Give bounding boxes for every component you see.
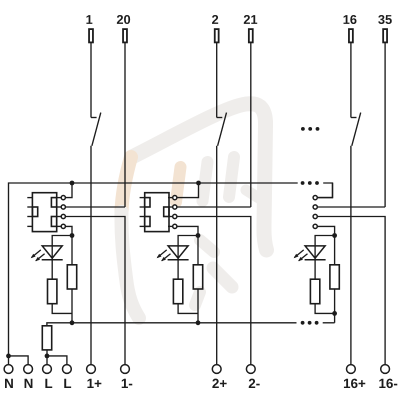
wire R0 to L terminals bbox=[46, 350, 48, 365]
resistor R1 bbox=[48, 279, 57, 304]
node ch2 coil return junction bbox=[196, 233, 201, 238]
ellipsis return bus bbox=[301, 321, 319, 325]
wire terminal 35 down to contact row bbox=[384, 43, 386, 207]
socket contacts ch1 bbox=[57, 196, 66, 229]
wire ch2 contact common to minus terminal bbox=[177, 217, 251, 365]
terminal 2- (bottom) bbox=[246, 365, 259, 388]
terminal 35 bbox=[378, 15, 392, 42]
wire terminal ch1 top lead bbox=[90, 43, 92, 118]
node N-bus / K1 coil tap bbox=[70, 181, 75, 186]
wire N bridge bbox=[9, 356, 29, 365]
socket contacts ch2 bbox=[168, 196, 177, 229]
wire ch1 contact common to minus terminal bbox=[65, 217, 125, 365]
wire L bridge bbox=[47, 356, 67, 365]
wire ch16 LED to resistor bbox=[314, 260, 316, 279]
wire ch2 LED to resistor bbox=[177, 260, 179, 279]
ellipsis N bus bbox=[301, 181, 319, 185]
LED ch1 bbox=[31, 246, 63, 261]
wire ch1 LED branch bbox=[52, 236, 72, 246]
resistor R3 bbox=[173, 279, 182, 304]
LED ch2 bbox=[157, 246, 189, 261]
wire ch16 coil return bbox=[317, 226, 334, 235]
switch S1 (contact in line 1) bbox=[91, 113, 101, 146]
terminal 21 bbox=[244, 15, 257, 42]
terminal L (bottom) bbox=[63, 365, 72, 388]
wire ch16 junction to bus bbox=[334, 313, 336, 322]
node N-bus / K2 coil tap bbox=[196, 181, 201, 186]
resistor R32 bbox=[330, 265, 339, 289]
wire N bus continuation to channel 16 bbox=[318, 183, 333, 198]
wire ch2 coil pin to N bus bbox=[177, 183, 199, 198]
wire terminal ch16 top lead bbox=[350, 43, 352, 118]
wire ch16 resistor R31 bottom bbox=[315, 304, 335, 314]
node ch1 return bus junction bbox=[70, 320, 75, 325]
wire ch16 switch to plus terminal bbox=[350, 146, 352, 365]
switch S16 (contact in line 16) bbox=[351, 113, 361, 146]
wire ch2 switch to plus terminal bbox=[216, 146, 218, 365]
terminal 1 bbox=[86, 15, 93, 42]
wire ch1 coil pin to N bus bbox=[65, 183, 72, 198]
terminal 16 bbox=[344, 15, 357, 42]
node L bridge bbox=[45, 354, 50, 359]
ellipsis switches bbox=[301, 127, 319, 131]
wire ch1 switch to plus terminal bbox=[90, 146, 92, 365]
relay K2 bbox=[140, 193, 169, 232]
terminal L (bottom) bbox=[43, 365, 53, 388]
wire ch2 contact row to terminal 21 bbox=[177, 206, 251, 208]
wire ch1 parallel branch bbox=[71, 236, 73, 265]
relay K1 bbox=[27, 193, 56, 232]
terminal 16- (bottom) bbox=[379, 365, 397, 389]
wire terminal 20 down to contact row bbox=[124, 43, 126, 207]
node ch16 coil return junction bbox=[332, 233, 337, 238]
wire ch1 LED to resistor bbox=[51, 260, 53, 279]
terminal 1- (bottom) bbox=[121, 365, 133, 388]
wire coil return bus bbox=[47, 323, 297, 326]
wire N supply bus bbox=[9, 183, 298, 365]
wire ch2 LED branch bbox=[178, 236, 198, 246]
wire ch2 coil return bbox=[177, 226, 198, 235]
node ch1 coil return junction bbox=[70, 233, 75, 238]
wire ch16 parallel branch bbox=[334, 236, 336, 265]
node N bridge bbox=[6, 354, 11, 359]
wire ch16 LED branch bbox=[315, 236, 335, 246]
resistor R4 bbox=[193, 265, 202, 289]
wire ch2 resistor R3 bottom bbox=[178, 304, 198, 314]
terminal N (bottom) bbox=[4, 365, 13, 388]
wire terminal ch2 top lead bbox=[216, 43, 218, 118]
wire ch1 resistor R1 bottom bbox=[52, 304, 72, 314]
node ch16 resistor junction bbox=[332, 311, 337, 316]
terminal 2 bbox=[212, 15, 219, 42]
LED ch16 bbox=[294, 246, 326, 261]
resistor R31 bbox=[310, 279, 319, 304]
wire terminal 21 down to contact row bbox=[250, 43, 252, 207]
wire ch2 parallel branch bbox=[197, 236, 199, 265]
terminal N (bottom) bbox=[24, 365, 33, 388]
terminal 1+ (bottom) bbox=[87, 365, 102, 388]
terminal 2+ (bottom) bbox=[212, 365, 226, 388]
resistor R0 (common) bbox=[42, 326, 51, 350]
wire ch1 coil return bbox=[65, 226, 72, 235]
terminal 20 bbox=[117, 15, 130, 42]
wire return bus continuation bbox=[323, 322, 335, 324]
wire ch1 contact row to terminal 20 bbox=[65, 206, 125, 208]
wire ch16 contact row to terminal 35 bbox=[317, 206, 385, 208]
wire ch16 coil pin to N bus bbox=[317, 183, 332, 198]
resistor R2 bbox=[67, 265, 76, 289]
wire ch16 contact common to minus terminal bbox=[317, 217, 385, 365]
socket contacts ch16 bbox=[313, 196, 317, 229]
node ch2 return bus junction bbox=[196, 320, 201, 325]
terminal 16+ (bottom) bbox=[344, 365, 365, 389]
switch S2 (contact in line 2) bbox=[217, 113, 227, 146]
